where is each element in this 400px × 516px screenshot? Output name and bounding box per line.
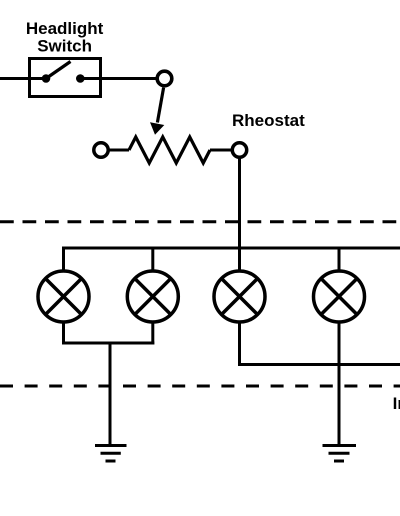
wire: right return drop to ground G2 (338, 365, 341, 446)
lamp L2 (127, 271, 178, 322)
ground G2 (323, 446, 357, 462)
wire: L3 bottom lead (238, 322, 241, 366)
svg-text:Rheostat: Rheostat (232, 111, 305, 130)
lamp L3 (214, 271, 265, 322)
wire: rheostat output down to lamp L3 (238, 157, 241, 271)
ground G1 (95, 446, 127, 462)
wire: right pair return bus (238, 363, 400, 366)
wire: feed into headlight switch (0, 77, 46, 80)
wire: L2 bottom lead (151, 322, 154, 345)
dashed line: lower harness boundary (0, 385, 400, 388)
wiper arrow (150, 88, 164, 135)
lamp L1 (38, 271, 89, 322)
wire: left pair return connector (62, 342, 154, 345)
headlight switch SW1 (30, 59, 101, 97)
svg-text:Instrument: Instrument (393, 394, 400, 413)
svg-text:Switch: Switch (37, 37, 92, 56)
dashed line: upper harness boundary (0, 220, 400, 223)
svg-text:Headlight: Headlight (26, 19, 104, 38)
wire: switch output to wiper terminal (80, 77, 156, 80)
node: rheostat output terminal (232, 143, 246, 157)
wire: left return drop to ground G1 (109, 343, 112, 446)
label: Headlight Switch (26, 19, 104, 56)
node: rheostat wiper terminal (157, 71, 172, 86)
rheostat R1 element (94, 137, 232, 163)
wire: L1 bottom lead (62, 322, 65, 345)
lamp L4 (314, 271, 365, 322)
wire: bus drop to lamp L2 (151, 248, 154, 271)
lamp supply bus (64, 248, 400, 271)
wire: bus drop to lamp L4 (338, 248, 341, 271)
wire: L4 bottom lead (338, 322, 341, 366)
